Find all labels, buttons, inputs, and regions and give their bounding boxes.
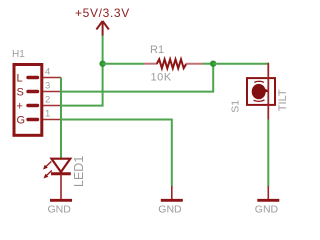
header H1 pin 1 lead <box>43 119 61 121</box>
header H1 pin 4 contact stub <box>28 76 38 79</box>
header H1 pin 3 contact stub <box>28 90 38 93</box>
resistor R1 zigzag body <box>157 59 187 68</box>
svg-text:S: S <box>17 86 24 98</box>
switch S1 ball contact protrusion <box>264 88 269 92</box>
header H1 pin 2 lead <box>43 105 61 107</box>
ground GND3 bar <box>257 199 279 202</box>
svg-text:+5V/3.3V: +5V/3.3V <box>75 6 130 20</box>
LED1 cathode lead down to ground <box>60 174 62 200</box>
LED1 triangle (anode) <box>52 159 71 172</box>
node: right junction dot <box>210 61 216 67</box>
ground GND3 lead <box>267 186 269 200</box>
svg-text:S1: S1 <box>229 100 241 113</box>
ground GND2 bar <box>161 199 183 202</box>
switch S1 body outline <box>247 78 275 105</box>
wire: H1 pin G over and down to middle ground <box>61 120 172 187</box>
resistor R1 right lead <box>186 63 203 65</box>
ground GND1 bar <box>50 199 72 202</box>
switch S1 bottom seat arc <box>254 100 265 101</box>
svg-text:G: G <box>17 114 26 126</box>
power arrow symbol <box>96 21 108 36</box>
ground GND2 lead <box>171 186 173 200</box>
resistor R1 left lead <box>144 63 158 65</box>
wire: left junction to resistor R1 left lead <box>103 63 145 65</box>
svg-text:R1: R1 <box>150 44 164 56</box>
header H1 pin 2 contact stub <box>28 104 38 107</box>
wire: right junction to tilt switch S1 top pin <box>213 63 268 65</box>
svg-text:GND: GND <box>158 203 182 215</box>
svg-text:4: 4 <box>45 67 50 78</box>
svg-text:10K: 10K <box>151 72 172 84</box>
svg-text:3: 3 <box>45 81 50 92</box>
wire: arrow stem down to left junction <box>102 36 104 64</box>
wire: tilt switch S1 bottom pin down to right ground <box>267 120 269 187</box>
wire: H1 pin L down to LED1 anode <box>60 78 62 159</box>
node: left junction dot <box>99 61 105 67</box>
svg-text:1: 1 <box>45 109 50 120</box>
wire: resistor to right junction <box>203 63 213 65</box>
LED1 emission arrow upper <box>43 162 51 170</box>
svg-text:L: L <box>17 72 23 84</box>
svg-text:LED1: LED1 <box>72 156 86 187</box>
svg-text:2: 2 <box>45 95 50 106</box>
header H1 pin 1 contact stub <box>28 118 38 121</box>
header H1 pin 4 lead <box>43 77 61 79</box>
wire: right junction down and over to H1 pin S (pin 3) <box>61 64 213 92</box>
switch S1 ball <box>252 84 266 99</box>
wire: left junction down and over to H1 pin + (pin 2) <box>61 64 103 106</box>
svg-text:+: + <box>17 100 23 112</box>
switch S1 through wire / pins <box>267 63 269 120</box>
svg-text:TILT: TILT <box>277 89 289 111</box>
header H1 pin 3 lead <box>43 91 61 93</box>
svg-text:H1: H1 <box>12 49 25 60</box>
svg-text:GND: GND <box>48 203 72 215</box>
LED1 cathode bar <box>51 172 71 175</box>
svg-text:GND: GND <box>255 203 279 215</box>
LED1 emission arrow lower <box>44 171 52 179</box>
switch S1 top seat arc <box>254 81 264 82</box>
header H1 body outline <box>14 65 42 136</box>
